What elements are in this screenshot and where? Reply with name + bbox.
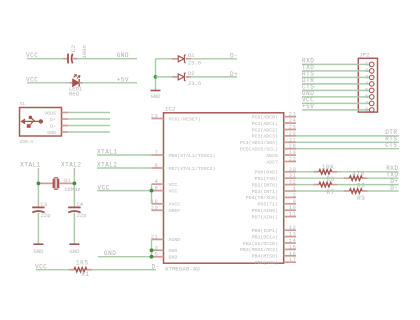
svg-text:GND: GND bbox=[33, 248, 44, 255]
svg-text:D-: D- bbox=[230, 53, 238, 60]
wire R1 to D- bbox=[92, 269, 156, 271]
wire +5V to JP2 pin 8 bbox=[302, 109, 369, 111]
capacitor C2 left pin bbox=[63, 58, 67, 60]
D2 cathode pin bbox=[186, 76, 191, 78]
pin 15 PB3(MOSI/OC2) of IC2 bbox=[240, 244, 297, 253]
svg-text:32: 32 bbox=[289, 180, 297, 186]
svg-text:1: 1 bbox=[365, 61, 368, 67]
svg-text:GND: GND bbox=[47, 130, 56, 136]
svg-text:4: 4 bbox=[155, 179, 159, 185]
svg-text:PB2(SS/OC1B): PB2(SS/OC1B) bbox=[243, 241, 278, 247]
svg-text:XTAL1: XTAL1 bbox=[20, 161, 41, 168]
pin 23 PC0(ADC0) of IC2 bbox=[252, 112, 297, 121]
pin 8 of JP2 bbox=[365, 107, 374, 113]
svg-text:PD4(T0/XCK): PD4(T0/XCK) bbox=[246, 195, 278, 201]
pin 22 ADC7 of IC2 bbox=[266, 157, 296, 166]
wire X1 GND bbox=[68, 131, 110, 133]
svg-text:9: 9 bbox=[293, 199, 297, 205]
pin 5 GND of IC2 bbox=[152, 252, 178, 261]
wire XTAL1 to pin 7 bbox=[97, 154, 152, 156]
svg-text:Z3.6: Z3.6 bbox=[188, 80, 201, 87]
svg-text:24: 24 bbox=[289, 118, 297, 124]
svg-text:16MHz: 16MHz bbox=[64, 186, 81, 193]
wire R to RXD label bbox=[337, 171, 399, 173]
wire X1 D+ bbox=[68, 118, 110, 120]
junction VCC pin 6 bbox=[150, 189, 154, 193]
svg-text:PD0(RXD): PD0(RXD) bbox=[255, 170, 279, 176]
zener diode D2 bbox=[178, 73, 185, 82]
wire RTS to JP2 pin 3 bbox=[302, 76, 369, 78]
svg-text:27: 27 bbox=[289, 137, 297, 143]
svg-text:19: 19 bbox=[289, 150, 297, 156]
svg-text:13: 13 bbox=[289, 232, 297, 238]
wire X1 D- bbox=[68, 125, 110, 127]
svg-text:XTAL2: XTAL2 bbox=[61, 161, 82, 168]
pin 29 PC6(/RESET) of IC2 bbox=[151, 114, 201, 123]
svg-text:25: 25 bbox=[289, 125, 297, 131]
wire pin to R (D+ row) bbox=[296, 184, 314, 186]
svg-text:Red: Red bbox=[69, 90, 79, 97]
LED1 right pin bbox=[79, 82, 83, 84]
svg-text:PD2(INT0): PD2(INT0) bbox=[252, 182, 278, 188]
pin 3 GND of IC2 bbox=[152, 245, 178, 254]
svg-text:PB1(OC1A): PB1(OC1A) bbox=[252, 234, 278, 240]
svg-text:PC6(/RESET): PC6(/RESET) bbox=[169, 116, 201, 122]
junction (zener branch) bbox=[154, 75, 158, 79]
junction GND pin 3 bbox=[150, 248, 154, 252]
pin 4 VCC of IC2 bbox=[152, 179, 178, 188]
pin 20 AREF of IC2 bbox=[151, 205, 180, 214]
svg-text:D2: D2 bbox=[188, 70, 195, 77]
pin 19 ADC6 of IC2 bbox=[266, 150, 296, 159]
svg-text:JP2: JP2 bbox=[359, 51, 370, 58]
svg-text:PC4(ADC4/SDA): PC4(ADC4/SDA) bbox=[240, 140, 278, 146]
wire TXD to JP2 pin 2 bbox=[302, 70, 369, 72]
pin 11 PD7(AIN1) of IC2 bbox=[252, 212, 297, 221]
pin 6 VCC of IC2 bbox=[152, 186, 178, 195]
pin 30 PD0(RXD) of IC2 bbox=[255, 167, 297, 176]
svg-text:C2: C2 bbox=[70, 44, 77, 52]
svg-text:D+: D+ bbox=[50, 117, 56, 123]
svg-text:R1: R1 bbox=[81, 271, 89, 278]
wire VCC to C2 bbox=[27, 58, 63, 60]
wire C3 to ground bbox=[37, 213, 39, 244]
wire CTS to JP2 pin 5 bbox=[302, 89, 369, 91]
svg-text:PB6(XTAL1/TOSC1): PB6(XTAL1/TOSC1) bbox=[169, 153, 216, 159]
wire VCC to LED1 bbox=[27, 82, 70, 84]
svg-text:12: 12 bbox=[289, 225, 297, 231]
svg-text:7: 7 bbox=[155, 150, 159, 156]
capacitor C4 bbox=[68, 207, 80, 212]
svg-text:PC0(ADC0): PC0(ADC0) bbox=[252, 115, 278, 121]
resistor R1 bbox=[69, 268, 93, 272]
svg-text:PC5(ADC5/SCL): PC5(ADC5/SCL) bbox=[240, 147, 278, 153]
LED LED1 bbox=[73, 75, 80, 87]
svg-text:PC2(ADC2): PC2(ADC2) bbox=[252, 127, 278, 133]
D2 anode pin bbox=[172, 76, 178, 78]
pin 7 PB6(XTAL1/TOSC1) of IC2 bbox=[152, 150, 216, 159]
pin 21 AGND of IC2 bbox=[151, 234, 180, 243]
ground (C3) bbox=[33, 244, 44, 255]
wire XTAL1 vertical bbox=[37, 168, 39, 207]
pin 24 PC1(ADC1) of IC2 bbox=[252, 118, 297, 127]
svg-text:28: 28 bbox=[289, 144, 297, 150]
pin 25 PC2(ADC2) of IC2 bbox=[252, 125, 297, 134]
wire pin to R (D- row) bbox=[296, 190, 344, 192]
ground (C4) bbox=[69, 244, 80, 255]
svg-text:10: 10 bbox=[289, 205, 297, 211]
svg-text:PB5(SCK): PB5(SCK) bbox=[255, 260, 279, 266]
svg-text:26: 26 bbox=[289, 131, 297, 137]
wire RTS bbox=[296, 141, 399, 143]
svg-text:PB0(ICP1): PB0(ICP1) bbox=[252, 228, 278, 234]
wire CTS bbox=[296, 148, 399, 150]
pin 14 PB2(SS/OC1B) of IC2 bbox=[243, 238, 297, 247]
wire VCC to R1 bbox=[36, 269, 69, 271]
ground (zener block) bbox=[150, 91, 161, 101]
svg-text:3: 3 bbox=[365, 74, 368, 80]
wire to D2 bbox=[156, 76, 173, 78]
wire C2 to GND label bbox=[77, 58, 137, 60]
svg-text:5: 5 bbox=[155, 252, 159, 258]
wire RXD to JP2 pin 1 bbox=[302, 63, 369, 65]
junction XTAL2/crystal bbox=[73, 182, 77, 186]
wire pin to R (TXD row) bbox=[296, 177, 344, 179]
LED1 left pin bbox=[69, 82, 72, 84]
wire GND to JP2 pin 6 bbox=[302, 96, 369, 98]
wire DTR bbox=[296, 135, 399, 137]
svg-text:22p: 22p bbox=[77, 212, 87, 219]
svg-text:AGND: AGND bbox=[169, 237, 181, 243]
wire C4 to ground bbox=[73, 213, 75, 244]
svg-text:6: 6 bbox=[155, 186, 159, 192]
pin 17 PB5(SCK) of IC2 bbox=[255, 257, 297, 266]
svg-text:GND: GND bbox=[169, 248, 178, 254]
pin 28 PC5(ADC5/SCL) of IC2 bbox=[240, 144, 297, 153]
pin 1 of JP2 bbox=[365, 61, 374, 67]
resistor R8 bbox=[344, 176, 368, 180]
svg-text:15: 15 bbox=[289, 244, 297, 250]
svg-text:PD6(AIN0): PD6(AIN0) bbox=[252, 208, 278, 214]
pin 31 PD1(TXD) of IC2 bbox=[255, 173, 297, 182]
pin 13 PB1(OC1A) of IC2 bbox=[252, 232, 297, 241]
svg-text:8: 8 bbox=[365, 107, 368, 113]
wire to D1 bbox=[156, 58, 173, 60]
pin 6 of JP2 bbox=[365, 94, 374, 100]
connector JP2 bbox=[358, 58, 377, 112]
wire VCC to JP2 pin 7 bbox=[302, 102, 369, 104]
svg-text:8: 8 bbox=[155, 163, 159, 169]
svg-text:X1: X1 bbox=[20, 101, 26, 107]
svg-text:470: 470 bbox=[352, 171, 365, 178]
pin 9 PD5(T1) of IC2 bbox=[257, 199, 296, 208]
wire R to D- label bbox=[367, 190, 398, 192]
resistor R6 bbox=[314, 170, 338, 174]
svg-text:30: 30 bbox=[289, 167, 297, 173]
svg-text:2: 2 bbox=[365, 68, 368, 74]
svg-text:GND: GND bbox=[69, 248, 80, 255]
svg-text:PD5(T1): PD5(T1) bbox=[257, 202, 278, 208]
D1 anode pin bbox=[172, 58, 178, 60]
svg-text:R9: R9 bbox=[357, 195, 365, 202]
svg-text:2: 2 bbox=[293, 192, 297, 198]
wire VCC vertical pins 4-18 bbox=[151, 184, 153, 204]
pin 16 PB4(MISO) of IC2 bbox=[252, 251, 297, 260]
svg-text:ATMEGA8-AU: ATMEGA8-AU bbox=[165, 265, 200, 272]
svg-text:Z3.6: Z3.6 bbox=[188, 59, 201, 66]
pin 2 PD4(T0/XCK) of IC2 bbox=[246, 192, 297, 201]
svg-text:VCC: VCC bbox=[169, 188, 178, 194]
D1 cathode pin bbox=[186, 58, 191, 60]
connector X1 (USB-A) bbox=[20, 108, 62, 137]
svg-text:PC1(ADC1): PC1(ADC1) bbox=[252, 121, 278, 127]
wire GND vertical pins 21-5 bbox=[151, 239, 153, 256]
svg-text:GND: GND bbox=[150, 93, 161, 100]
wire D1 to D- label bbox=[191, 58, 237, 60]
svg-text:ADC6: ADC6 bbox=[266, 153, 278, 159]
wire XTAL2 vertical bbox=[73, 168, 75, 207]
svg-text:3: 3 bbox=[155, 245, 159, 251]
svg-text:14: 14 bbox=[289, 238, 297, 244]
wire zener vertical to ground bbox=[155, 59, 157, 90]
svg-text:17: 17 bbox=[289, 257, 297, 263]
zener diode D1 bbox=[178, 55, 185, 64]
op-amp/IC box IC2 ATMEGA8 bbox=[164, 113, 284, 263]
pin 5 of JP2 bbox=[365, 87, 374, 93]
svg-text:IC2: IC2 bbox=[165, 105, 176, 112]
svg-text:5: 5 bbox=[365, 87, 368, 93]
svg-text:+5V: +5V bbox=[302, 103, 314, 110]
svg-text:C4: C4 bbox=[77, 201, 84, 208]
svg-text:D-: D- bbox=[152, 263, 160, 270]
svg-text:Q1: Q1 bbox=[64, 177, 71, 184]
svg-text:D-: D- bbox=[50, 123, 56, 129]
wire R to TXD label bbox=[367, 177, 398, 179]
capacitor C3 bbox=[32, 207, 44, 212]
svg-text:PB3(MOSI/OC2): PB3(MOSI/OC2) bbox=[240, 247, 278, 253]
wire LED1 to +5V bbox=[83, 82, 137, 84]
wire pin to R (RXD row) bbox=[296, 171, 314, 173]
crystal Q1 right pin bbox=[59, 182, 74, 184]
resistor R7 bbox=[314, 182, 338, 186]
wire VCC to pin 6 bbox=[98, 190, 152, 192]
svg-text:PD3(INT1): PD3(INT1) bbox=[252, 189, 278, 195]
wire D2 to D+ label bbox=[191, 76, 237, 78]
capacitor C2 bbox=[68, 54, 73, 64]
pin 3 of JP2 bbox=[365, 74, 374, 80]
pin 1 PD3(INT1) of IC2 bbox=[252, 186, 297, 195]
svg-text:+5V: +5V bbox=[117, 76, 129, 83]
svg-text:16: 16 bbox=[289, 251, 297, 257]
svg-text:22p: 22p bbox=[41, 212, 51, 219]
pin 2 of JP2 bbox=[365, 68, 374, 74]
svg-text:D+: D+ bbox=[230, 71, 238, 78]
svg-text:D-: D- bbox=[390, 184, 398, 191]
capacitor C2 right pin bbox=[73, 58, 78, 60]
wire X1 VBUS bbox=[68, 112, 110, 114]
svg-text:PD1(TXD): PD1(TXD) bbox=[255, 176, 279, 182]
svg-text:PD7(AIN1): PD7(AIN1) bbox=[252, 214, 278, 220]
svg-text:VBUS: VBUS bbox=[44, 110, 56, 116]
svg-text:ADC7: ADC7 bbox=[266, 159, 278, 165]
svg-text:6: 6 bbox=[365, 94, 368, 100]
svg-text:PC3(ADC3): PC3(ADC3) bbox=[252, 134, 278, 140]
svg-text:VCC: VCC bbox=[169, 182, 178, 188]
svg-text:10K: 10K bbox=[322, 164, 335, 171]
crystal Q1 bbox=[54, 178, 59, 190]
pin 4 of JP2 bbox=[365, 81, 374, 87]
wire R to D+ label bbox=[337, 184, 399, 186]
svg-text:D1: D1 bbox=[188, 52, 195, 59]
svg-text:11: 11 bbox=[289, 212, 297, 218]
svg-text:GND: GND bbox=[169, 255, 178, 261]
svg-text:1K5: 1K5 bbox=[76, 260, 89, 267]
wire GND to pin 5 bbox=[98, 256, 152, 258]
svg-text:4: 4 bbox=[365, 81, 368, 87]
svg-text:20: 20 bbox=[151, 205, 159, 211]
pin 7 of JP2 bbox=[365, 100, 374, 106]
svg-text:100n: 100n bbox=[81, 45, 88, 58]
pin 26 PC3(ADC3) of IC2 bbox=[252, 131, 297, 140]
svg-text:7: 7 bbox=[365, 100, 368, 106]
svg-text:22: 22 bbox=[289, 157, 297, 163]
svg-text:CTS: CTS bbox=[385, 142, 397, 149]
svg-text:C3: C3 bbox=[41, 201, 48, 208]
svg-text:29: 29 bbox=[151, 114, 159, 120]
pin 8 PB7(XTAL2/TOSC2) of IC2 bbox=[152, 163, 216, 172]
svg-text:PB7(XTAL2/TOSC2): PB7(XTAL2/TOSC2) bbox=[169, 166, 216, 172]
pin 12 PB0(ICP1) of IC2 bbox=[252, 225, 297, 234]
crystal Q1 left pin bbox=[38, 182, 53, 184]
wire XTAL2 to pin 8 bbox=[97, 167, 152, 169]
junction XTAL1/crystal bbox=[37, 182, 41, 186]
wire DTR to JP2 pin 4 bbox=[302, 83, 369, 85]
junction GND pin 5 bbox=[150, 255, 154, 259]
svg-text:PB4(MISO): PB4(MISO) bbox=[252, 254, 278, 260]
pin 10 PD6(AIN0) of IC2 bbox=[252, 205, 297, 214]
svg-text:23: 23 bbox=[289, 112, 297, 118]
svg-text:GND: GND bbox=[117, 52, 129, 59]
pin 32 PD2(INT0) of IC2 bbox=[252, 180, 297, 189]
svg-text:USB-A: USB-A bbox=[20, 139, 34, 145]
svg-text:AVCC: AVCC bbox=[169, 202, 181, 208]
svg-text:1: 1 bbox=[293, 186, 297, 192]
USB icon bbox=[21, 116, 43, 128]
pin 27 PC4(ADC4/SDA) of IC2 bbox=[240, 137, 297, 146]
pin 18 AVCC of IC2 bbox=[151, 199, 180, 208]
svg-text:AREF: AREF bbox=[169, 208, 181, 214]
svg-text:R7: R7 bbox=[327, 189, 335, 196]
svg-text:31: 31 bbox=[289, 173, 297, 179]
resistor R9 bbox=[344, 189, 368, 193]
